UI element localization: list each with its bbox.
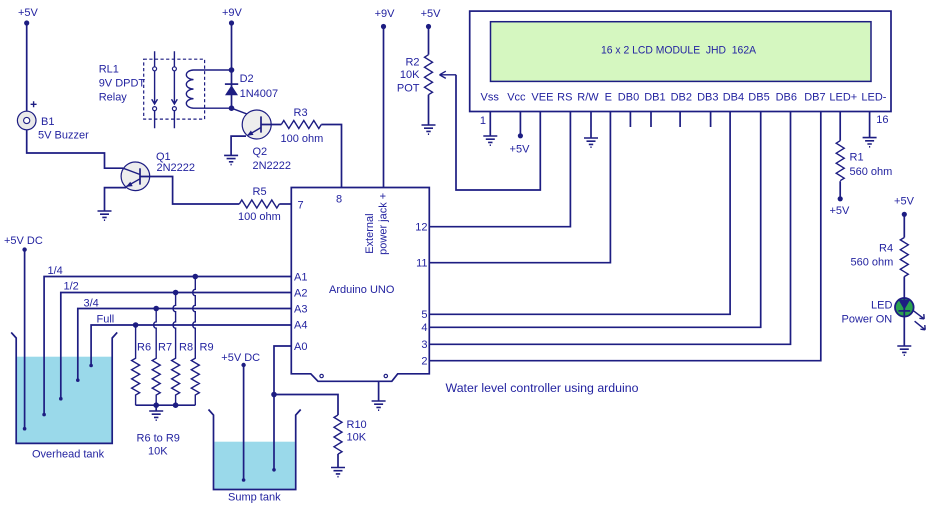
svg-text:1/4: 1/4 — [48, 265, 63, 277]
junction sump probe node — [271, 392, 277, 398]
resistor R1 — [836, 141, 892, 181]
wire R3 to Arduino pin 8 — [321, 125, 341, 188]
LCD pin 7 DB0 stub — [629, 112, 631, 128]
wire R4 to LED — [903, 277, 905, 299]
wire R10 to ground — [337, 454, 339, 468]
svg-text:DB4: DB4 — [723, 92, 744, 104]
wire Q2 base to R3 — [261, 124, 281, 126]
wire R2 wiper to LCD VEE — [456, 75, 540, 190]
probe wire 1/4 to A1 — [44, 277, 291, 415]
probe wire sump (A0) — [273, 395, 275, 470]
LCD pin 10 DB3 stub — [710, 112, 712, 128]
junction bus R8 — [173, 402, 179, 408]
svg-text:Sump tank: Sump tank — [228, 492, 281, 504]
svg-text:R6: R6 — [137, 342, 151, 354]
resistor R9 — [191, 277, 213, 406]
svg-text:16: 16 — [876, 114, 888, 126]
svg-text:+5V: +5V — [18, 7, 39, 19]
wire buzzer to Q1 collector — [27, 130, 123, 168]
svg-text:R/W: R/W — [577, 92, 599, 104]
R6 to R9 value label — [137, 433, 180, 458]
resistor R8 — [172, 293, 193, 406]
resistor R10 — [334, 415, 367, 454]
LCD pin 13 DB6 wire to Arduino pin 3 — [429, 112, 790, 345]
wire Q2 emitter to ground — [231, 136, 246, 155]
LCD pin 6 E wire to Arduino pin 11 — [429, 112, 610, 263]
svg-text:Full: Full — [97, 314, 115, 326]
+5V supply (LED branch) — [894, 195, 915, 217]
relay RL1 enclosure — [144, 59, 205, 119]
svg-text:+5V DC: +5V DC — [221, 352, 260, 364]
probe wire 3/4 to A3 — [78, 309, 291, 381]
svg-text:2N2222: 2N2222 — [253, 160, 292, 172]
svg-text:7: 7 — [298, 200, 304, 212]
LCD module — [470, 11, 891, 111]
svg-text:D2: D2 — [240, 73, 254, 85]
svg-text:9V DPDT: 9V DPDT — [99, 78, 146, 90]
wire R5 to Arduino pin 7 — [279, 203, 291, 205]
LCD pin 16 LED- wire — [869, 112, 871, 138]
+9V supply (relay branch) — [222, 7, 243, 26]
svg-text:A2: A2 — [294, 288, 307, 300]
svg-text:Overhead tank: Overhead tank — [32, 449, 105, 461]
svg-text:LED: LED — [871, 300, 892, 312]
resistor R4 — [851, 238, 909, 277]
svg-text:1N4007: 1N4007 — [240, 88, 279, 100]
svg-text:16 x 2 LCD MODULE JHD 162A: 16 x 2 LCD MODULE JHD 162A — [601, 45, 756, 57]
junction coil bottom — [229, 105, 235, 111]
wire LED to ground — [903, 317, 905, 346]
wire R1 to +5V — [839, 181, 841, 196]
LCD pin 8 DB1 stub — [650, 112, 652, 128]
+9V supply (power jack) — [375, 8, 396, 29]
junction R8/1-2 — [173, 290, 179, 296]
svg-text:Water level controller using a: Water level controller using arduino — [446, 381, 639, 395]
ground (Q2 emitter) — [224, 155, 238, 164]
LCD pin 11 DB4 wire to Arduino pin 5 — [429, 112, 730, 315]
resistor R6 — [132, 325, 151, 405]
svg-text:+5V: +5V — [421, 8, 442, 20]
svg-text:E: E — [605, 92, 612, 104]
svg-text:R9: R9 — [200, 342, 214, 354]
overhead tank — [11, 332, 117, 443]
svg-text:R8: R8 — [179, 342, 193, 354]
svg-text:+9V: +9V — [222, 7, 243, 19]
resistor R7 — [152, 309, 172, 406]
ground (Vss) — [483, 136, 497, 145]
ground (LED-) — [863, 138, 877, 147]
svg-text:+5V DC: +5V DC — [4, 235, 43, 247]
svg-text:A0: A0 — [294, 341, 307, 353]
+5V supply (R1) — [829, 196, 850, 217]
svg-text:DB6: DB6 — [776, 92, 797, 104]
svg-text:Vcc: Vcc — [507, 92, 526, 104]
svg-text:3/4: 3/4 — [84, 297, 99, 309]
LCD pin 1 Vss wire — [489, 112, 491, 137]
svg-text:+5V: +5V — [894, 195, 915, 207]
wire +5V to R2 — [428, 27, 430, 55]
svg-text:R4: R4 — [879, 243, 893, 255]
svg-text:B1: B1 — [41, 116, 54, 128]
svg-text:R6 to R9: R6 to R9 — [137, 433, 180, 445]
svg-text:3: 3 — [421, 339, 427, 351]
svg-text:R3: R3 — [294, 107, 308, 119]
probe wire 1/2 to A2 — [61, 293, 291, 399]
ground (LED) — [897, 346, 911, 355]
svg-text:Arduino UNO: Arduino UNO — [329, 284, 395, 296]
+5V supply (Vcc) — [510, 133, 531, 155]
svg-text:R1: R1 — [850, 152, 864, 164]
LCD pin 4 RS wire to Arduino pin 12 — [429, 112, 570, 227]
svg-text:2N2222: 2N2222 — [157, 162, 196, 174]
svg-text:10K: 10K — [148, 446, 168, 458]
svg-text:10K: 10K — [400, 69, 420, 81]
svg-text:Power ON: Power ON — [842, 314, 893, 326]
svg-text:Relay: Relay — [99, 92, 128, 104]
LCD pin 9 DB2 stub — [679, 112, 681, 128]
svg-text:R2: R2 — [405, 57, 419, 69]
junction R9/1-4 — [193, 274, 199, 280]
Arduino UNO U1 — [291, 188, 429, 382]
LCD pin 12 DB5 wire to Arduino pin 4 — [429, 112, 760, 328]
svg-text:2: 2 — [421, 356, 427, 368]
svg-text:LED+: LED+ — [829, 92, 857, 104]
svg-text:10K: 10K — [347, 432, 367, 444]
wire bus to ground — [155, 405, 157, 411]
svg-text:DB5: DB5 — [748, 92, 769, 104]
wire A0 node to R10 — [274, 395, 338, 416]
transistor Q2 — [242, 110, 291, 172]
overhead tank water — [17, 357, 112, 443]
wire +9V to power jack — [383, 27, 385, 188]
svg-text:A4: A4 — [294, 320, 307, 332]
junction R6/Full — [133, 322, 139, 328]
svg-text:11: 11 — [416, 258, 427, 270]
junction bus R7 — [153, 402, 159, 408]
svg-text:DB1: DB1 — [644, 92, 665, 104]
svg-text:DB7: DB7 — [804, 92, 825, 104]
probe wire power (sump tank) — [243, 365, 245, 480]
+5V supply (pot) — [421, 8, 442, 29]
svg-text:Q2: Q2 — [253, 146, 268, 158]
svg-text:560 ohm: 560 ohm — [851, 257, 894, 269]
LCD pin 14 DB7 wire to Arduino pin 2 — [429, 112, 821, 361]
svg-text:+5V: +5V — [829, 205, 850, 217]
svg-text:POT: POT — [397, 83, 420, 95]
wire Q1 emitter to ground — [105, 188, 127, 211]
diode D2 — [225, 73, 278, 100]
svg-text:4: 4 — [421, 322, 427, 334]
svg-text:12: 12 — [415, 222, 427, 234]
svg-text:+5V: +5V — [510, 144, 531, 156]
transistor Q1 — [121, 151, 195, 191]
svg-text:RS: RS — [557, 92, 572, 104]
ground (Arduino) — [378, 381, 380, 401]
svg-text:R7: R7 — [158, 342, 172, 354]
svg-text:DB2: DB2 — [671, 92, 692, 104]
relay RL1 labels — [99, 64, 146, 104]
wire +5V to R4 — [903, 214, 905, 237]
junction coil top — [229, 67, 235, 73]
probe wire power (overhead tank) — [24, 250, 26, 429]
svg-text:A3: A3 — [294, 304, 307, 316]
wire A0 to sump probe node — [274, 346, 291, 395]
+5V DC supply (overhead tank probe) — [4, 235, 43, 252]
probe wire Full to A4 — [91, 325, 291, 366]
svg-text:Vss: Vss — [481, 92, 500, 104]
+5V supply node (buzzer branch) — [18, 7, 39, 26]
sump tank water — [214, 442, 295, 489]
svg-text:R10: R10 — [347, 419, 367, 431]
LCD pin 2 Vcc wire — [519, 112, 521, 134]
svg-text:A1: A1 — [294, 272, 307, 284]
svg-text:1: 1 — [480, 115, 486, 127]
svg-text:+9V: +9V — [375, 8, 396, 20]
wire D2 anode to Q2 collector — [232, 108, 262, 119]
svg-text:5V Buzzer: 5V Buzzer — [38, 130, 89, 142]
LCD pin 5 R/W wire — [590, 112, 592, 139]
wire R6-R9 bottom bus — [136, 404, 196, 406]
+5V DC supply (sump tank probe) — [221, 352, 260, 367]
ground (R6-R9) — [149, 411, 163, 420]
ground (Q1 emitter) — [98, 211, 112, 220]
ground (R/W) — [584, 138, 598, 147]
svg-text:R5: R5 — [253, 186, 267, 198]
wire R2 bottom to ground — [428, 95, 430, 125]
junction R7/3-4 — [153, 306, 159, 312]
svg-text:8: 8 — [336, 194, 342, 206]
LED Power ON — [842, 298, 926, 330]
wire +9V through D2 to Q2 collector node — [231, 23, 233, 108]
wire Q1 base to R5 — [140, 177, 239, 205]
svg-text:DB0: DB0 — [618, 92, 639, 104]
relay contact 2 — [172, 51, 178, 128]
svg-text:560 ohm: 560 ohm — [850, 166, 893, 178]
svg-text:LED-: LED- — [861, 92, 886, 104]
relay coil — [186, 70, 231, 108]
buzzer B1 — [17, 101, 89, 141]
ground (R10) — [331, 468, 345, 477]
relay contact 1 — [152, 51, 158, 128]
resistor R3 — [281, 107, 324, 145]
svg-text:5: 5 — [421, 309, 427, 321]
svg-text:power jack +: power jack + — [378, 193, 390, 255]
svg-text:1/2: 1/2 — [64, 281, 79, 293]
potentiometer R2 — [397, 55, 456, 95]
resistor R5 — [238, 186, 281, 223]
svg-text:VEE: VEE — [531, 92, 553, 104]
svg-text:DB3: DB3 — [697, 92, 718, 104]
sump tank — [209, 410, 301, 490]
LCD pin 15 LED+ wire — [839, 112, 841, 141]
svg-text:100 ohm: 100 ohm — [281, 133, 324, 145]
wire +5V to buzzer — [26, 23, 28, 111]
svg-text:External: External — [364, 213, 376, 253]
svg-text:RL1: RL1 — [99, 64, 119, 76]
svg-text:100 ohm: 100 ohm — [238, 211, 281, 223]
